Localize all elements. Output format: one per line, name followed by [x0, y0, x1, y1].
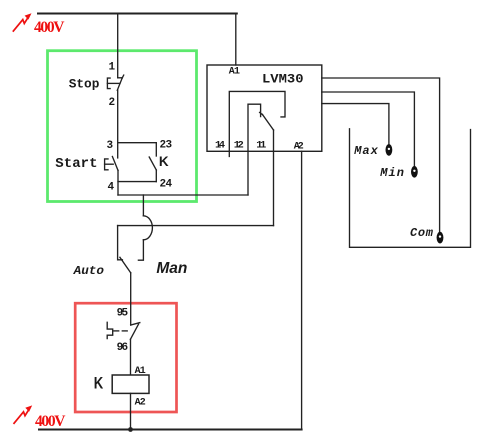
svg-text:K: K: [94, 375, 104, 393]
svg-text:A2: A2: [135, 398, 146, 409]
svg-text:1: 1: [109, 62, 116, 74]
svg-text:Min: Min: [379, 166, 404, 180]
svg-text:2: 2: [109, 97, 116, 109]
svg-text:96: 96: [117, 342, 129, 354]
svg-text:24: 24: [160, 178, 173, 190]
svg-text:Man: Man: [156, 260, 187, 277]
svg-text:11: 11: [256, 140, 266, 152]
svg-text:400V: 400V: [34, 19, 65, 36]
svg-text:A2: A2: [294, 142, 304, 153]
svg-text:3: 3: [107, 140, 114, 152]
svg-text:23: 23: [160, 139, 173, 151]
svg-text:95: 95: [117, 308, 129, 320]
svg-text:Start: Start: [55, 156, 97, 172]
svg-text:400V: 400V: [35, 413, 66, 430]
svg-text:4: 4: [108, 181, 115, 193]
svg-text:LVM30: LVM30: [262, 72, 304, 87]
svg-text:A1: A1: [135, 366, 146, 377]
svg-text:Stop: Stop: [69, 76, 100, 91]
svg-text:Com: Com: [410, 226, 434, 240]
svg-text:A1: A1: [229, 66, 240, 77]
svg-text:Max: Max: [353, 144, 378, 158]
svg-text:Auto: Auto: [72, 265, 104, 278]
svg-text:K: K: [159, 154, 169, 169]
svg-text:14: 14: [215, 140, 225, 152]
svg-text:12: 12: [234, 140, 244, 152]
